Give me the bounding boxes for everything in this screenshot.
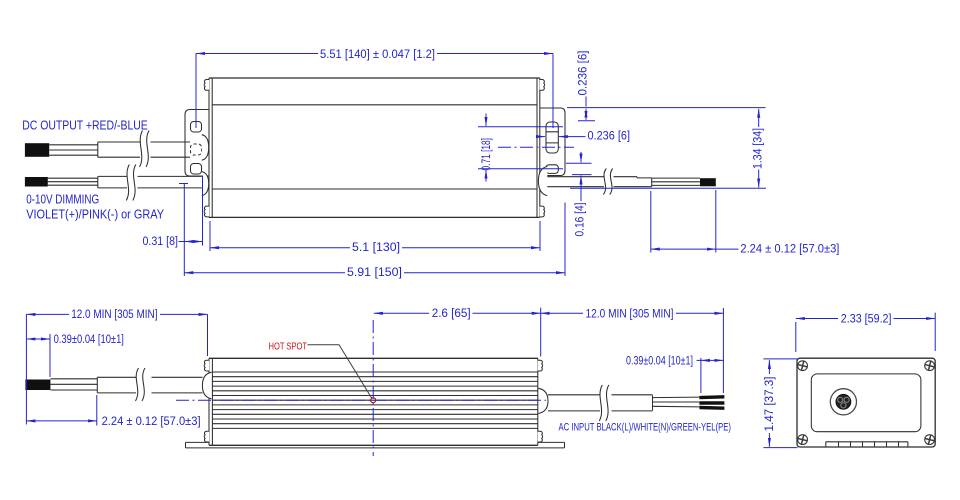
svg-text:DC OUTPUT +RED/-BLUE: DC OUTPUT +RED/-BLUE (22, 118, 148, 133)
dimension 5.91 [150] (564, 203, 566, 277)
side DC cable break symbol (136, 368, 146, 401)
side corner screw tab bottom-left (204, 431, 209, 442)
side corner screw tab top-right (538, 360, 543, 371)
svg-text:HOT SPOT: HOT SPOT (269, 341, 308, 353)
svg-text:0-10V DIMMING: 0-10V DIMMING (26, 192, 99, 207)
corner screw bottom-left (797, 434, 808, 445)
side AC cable sheath (548, 395, 653, 411)
DC wire break symbol (140, 131, 150, 168)
end view body (797, 358, 935, 447)
DC wire conductors (49, 145, 98, 155)
dimension 2.33 [59.2] (796, 313, 935, 352)
corner screw tab top-right (540, 79, 545, 90)
svg-text:2.24 ± 0.12 [57.0±3]: 2.24 ± 0.12 [57.0±3] (102, 414, 201, 428)
svg-text:0.39±0.04 [10±1]: 0.39±0.04 [10±1] (626, 353, 693, 367)
corner screw tab top-left (204, 79, 209, 90)
right mounting bracket (540, 108, 565, 176)
left bracket hidden slot (dashed) (191, 144, 202, 155)
dimension 1.47 [37.3] (763, 359, 797, 448)
cable gland outer ring (830, 389, 856, 415)
left mounting bracket (185, 110, 209, 177)
svg-text:1.47 [37.3]: 1.47 [37.3] (762, 377, 776, 432)
dimension 2.24 bottom (96, 395, 98, 426)
dimension 0.236 [6] slot width (539, 136, 546, 138)
side DC cable tip (25, 380, 50, 391)
right bracket hole lower (546, 165, 558, 174)
dimension 12.0 MIN left (26, 314, 207, 424)
dimension 12.0 MIN right (541, 308, 724, 393)
dimension 2.24 top (651, 190, 716, 253)
dim wire conductors (48, 178, 98, 185)
dim wire gland bump (202, 172, 209, 196)
side AC cable break symbol (599, 385, 609, 421)
hot spot leader (308, 345, 373, 399)
dim wire sheath (98, 176, 202, 188)
dimension 1.34 [34] (567, 108, 766, 189)
svg-text:0.71 [18]: 0.71 [18] (479, 138, 493, 171)
dimension 2.6 [65] (374, 312, 429, 314)
centerline tick left (179, 183, 188, 185)
svg-text:2.24 ± 0.12 [57.0±3]: 2.24 ± 0.12 [57.0±3] (740, 241, 839, 255)
AC wire tip top view (700, 178, 716, 186)
terminal strip (826, 442, 908, 447)
corner screw tab bottom-left (204, 206, 209, 217)
svg-text:0.31 [8]: 0.31 [8] (143, 234, 179, 248)
side corner screw tab bottom-right (538, 431, 543, 442)
side DC cable conductors (50, 379, 97, 390)
svg-text:12.0 MIN [305 MIN]: 12.0 MIN [305 MIN] (586, 307, 674, 321)
svg-text:5.1 [130]: 5.1 [130] (352, 240, 400, 254)
side corner screw tab top-left (204, 360, 209, 371)
side AC cable conductors (653, 397, 700, 407)
AC wire sheath top view (547, 177, 651, 187)
heatsink fin lines (212, 372, 537, 428)
dimension 5.51 [140] (196, 54, 553, 129)
svg-text:0.236 [6]: 0.236 [6] (576, 51, 590, 96)
svg-text:2.33 [59.2]: 2.33 [59.2] (841, 311, 892, 325)
dimension 0.39 left (49, 334, 51, 377)
svg-text:1.34 [34]: 1.34 [34] (751, 128, 765, 169)
TOP VIEW GROUP (22, 47, 839, 279)
mounting plate (feet) (186, 442, 565, 448)
corner screw bottom-right (924, 434, 935, 445)
AC wire break symbol top view (603, 169, 612, 195)
svg-text:2.6 [65]: 2.6 [65] (432, 306, 471, 320)
DC wire tip (25, 143, 49, 157)
dimension 0.16 [4] (566, 163, 592, 174)
hot spot marker (371, 398, 376, 403)
AC wire gland bump (538, 166, 547, 195)
cable gland nut (836, 394, 851, 409)
SIDE VIEW GROUP (25, 306, 731, 456)
side DC cable sheath (97, 377, 202, 393)
top view body outline (209, 78, 540, 217)
corner screw top-right (924, 360, 935, 371)
dimension 0.39 right (700, 358, 702, 393)
DC wire sheath (98, 142, 190, 157)
side right cable gland (539, 388, 549, 413)
svg-text:5.51 [140] ± 0.047 [1.2]: 5.51 [140] ± 0.047 [1.2] (320, 47, 435, 61)
dim wire tip (25, 177, 48, 187)
svg-text:0.39±0.04 [10±1]: 0.39±0.04 [10±1] (54, 332, 124, 346)
dimension 0.236 [6] vertical at bracket top (578, 120, 595, 122)
inner panel (811, 374, 921, 432)
dim wire break symbol (126, 165, 136, 201)
svg-text:VIOLET(+)/PINK(-) or GRAY: VIOLET(+)/PINK(-) or GRAY (26, 207, 164, 222)
side left cable gland (202, 372, 211, 399)
crosshair horizontal centerline (176, 399, 546, 401)
svg-text:5.91 [150]: 5.91 [150] (347, 265, 402, 279)
dimension 0.31 [8] (184, 176, 202, 277)
side AC wire tips (699, 395, 724, 399)
svg-text:12.0 MIN [305 MIN]: 12.0 MIN [305 MIN] (71, 307, 157, 321)
corner screw top-left (797, 360, 808, 371)
AC wire conductors top view (652, 178, 700, 185)
dimension 5.1 [130] (210, 221, 540, 251)
DC wire gland bump (202, 135, 209, 161)
left bracket hole lower (191, 164, 202, 175)
svg-text:AC INPUT BLACK(L)/WHITE(N)/GRE: AC INPUT BLACK(L)/WHITE(N)/GREEN-YEL(PE) (559, 422, 732, 434)
END VIEW GROUP (762, 311, 935, 447)
centerline through right bracket (498, 146, 574, 148)
left bracket hole upper (191, 122, 202, 133)
side view body outline (209, 358, 538, 445)
dimension 0.71 [18] (478, 127, 563, 169)
top view inner edge lines (212, 105, 537, 189)
right bracket slot hole (546, 122, 558, 153)
crosshair vertical centerline (372, 320, 374, 456)
corner screw tab bottom-right (540, 206, 545, 217)
svg-text:0.16 [4]: 0.16 [4] (573, 203, 587, 237)
svg-text:0.236 [6]: 0.236 [6] (588, 128, 631, 142)
